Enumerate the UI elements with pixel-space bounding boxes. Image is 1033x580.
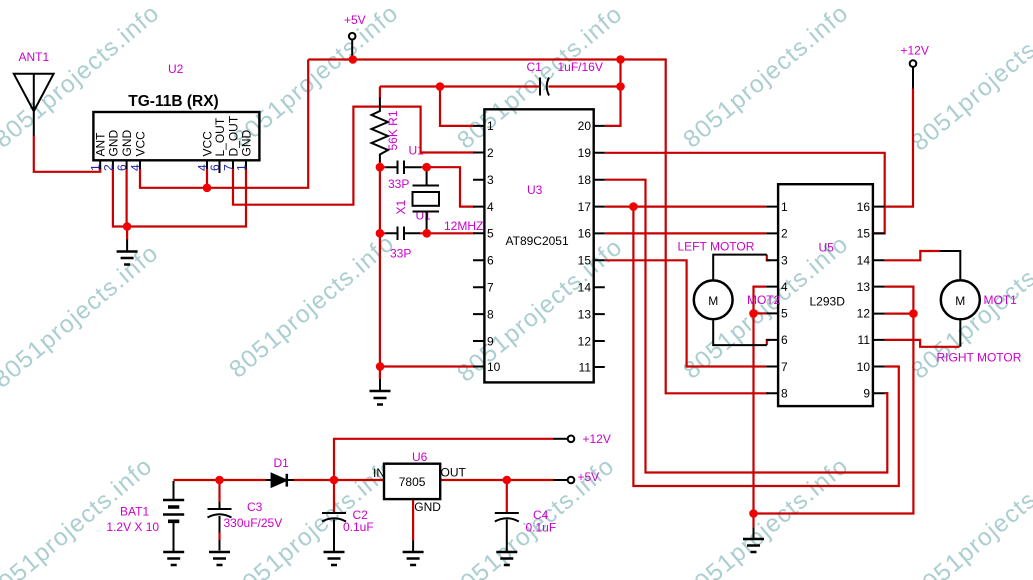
svg-text:8051projects.info: 8051projects.info	[906, 2, 1033, 156]
svg-text:12: 12	[857, 307, 871, 321]
svg-text:2: 2	[781, 227, 788, 241]
svg-text:+5V: +5V	[344, 13, 366, 27]
svg-text:18: 18	[578, 173, 592, 187]
svg-text:8051projects.info: 8051projects.info	[0, 239, 164, 393]
svg-text:U1: U1	[409, 144, 425, 158]
svg-text:GND: GND	[106, 130, 120, 157]
svg-text:0.1uF: 0.1uF	[343, 520, 374, 534]
svg-text:8051projects.info: 8051projects.info	[0, 0, 165, 154]
svg-text:6: 6	[208, 164, 222, 171]
svg-text:330uF/25V: 330uF/25V	[224, 516, 283, 530]
svg-text:20: 20	[578, 119, 592, 133]
svg-text:14: 14	[578, 281, 592, 295]
svg-text:L293D: L293D	[810, 295, 846, 309]
svg-text:1uF/16V: 1uF/16V	[558, 60, 603, 74]
svg-text:19: 19	[578, 146, 592, 160]
svg-text:+12V: +12V	[583, 432, 611, 446]
svg-text:9: 9	[487, 334, 494, 348]
svg-text:4: 4	[129, 164, 143, 171]
svg-text:RIGHT MOTOR: RIGHT MOTOR	[937, 351, 1022, 365]
svg-text:BAT1: BAT1	[120, 505, 149, 519]
svg-text:U3: U3	[527, 183, 543, 197]
svg-text:U5: U5	[819, 241, 835, 255]
svg-text:M: M	[955, 294, 965, 308]
svg-text:11: 11	[579, 360, 592, 374]
svg-text:15: 15	[857, 227, 871, 241]
svg-text:4: 4	[487, 200, 494, 214]
svg-text:56K R1: 56K R1	[386, 110, 400, 150]
svg-text:9: 9	[863, 387, 870, 401]
svg-text:C1: C1	[527, 60, 543, 74]
svg-text:3: 3	[781, 254, 788, 268]
svg-text:8051projects.info: 8051projects.info	[678, 0, 854, 154]
svg-text:LEFT MOTOR: LEFT MOTOR	[678, 239, 755, 253]
svg-text:VCC: VCC	[134, 131, 148, 157]
svg-text:33P: 33P	[390, 247, 411, 261]
svg-text:15: 15	[578, 254, 592, 268]
svg-text:+5V: +5V	[578, 470, 600, 484]
svg-text:MOT1: MOT1	[984, 293, 1018, 307]
svg-text:7: 7	[487, 281, 494, 295]
svg-text:16: 16	[578, 227, 592, 241]
svg-text:0.1uF: 0.1uF	[526, 521, 557, 535]
svg-text:5: 5	[487, 227, 494, 241]
svg-text:4: 4	[781, 280, 788, 294]
svg-text:12: 12	[578, 334, 592, 348]
svg-text:GND: GND	[240, 130, 254, 157]
svg-text:10: 10	[487, 360, 501, 374]
svg-text:TG-11B (RX): TG-11B (RX)	[128, 93, 218, 110]
svg-text:GND: GND	[414, 500, 441, 514]
svg-text:7: 7	[781, 360, 788, 374]
svg-text:AT89C2051: AT89C2051	[506, 234, 569, 248]
svg-text:L_OUT: L_OUT	[213, 117, 227, 156]
svg-text:GND: GND	[120, 130, 134, 157]
svg-text:6: 6	[781, 333, 788, 347]
svg-text:7: 7	[222, 164, 236, 171]
svg-text:14: 14	[857, 254, 871, 268]
svg-text:U6: U6	[412, 450, 428, 464]
svg-text:8: 8	[781, 387, 788, 401]
svg-text:2: 2	[487, 146, 494, 160]
svg-text:+12V: +12V	[901, 43, 929, 57]
svg-text:8051projects.info: 8051projects.info	[452, 0, 628, 154]
svg-text:8051projects.info: 8051projects.info	[224, 229, 400, 383]
svg-text:1.2V X 10: 1.2V X 10	[106, 520, 159, 534]
svg-text:13: 13	[857, 280, 871, 294]
svg-text:11: 11	[858, 333, 871, 347]
svg-text:5: 5	[781, 307, 788, 321]
svg-text:33P: 33P	[388, 177, 409, 191]
svg-text:OUT: OUT	[441, 466, 467, 480]
svg-text:2: 2	[101, 164, 115, 171]
svg-text:U2: U2	[168, 62, 184, 76]
svg-text:X1: X1	[394, 199, 408, 214]
svg-text:7805: 7805	[399, 475, 426, 489]
svg-text:3: 3	[487, 173, 494, 187]
svg-text:MOT2: MOT2	[747, 293, 781, 307]
svg-text:16: 16	[857, 200, 871, 214]
svg-text:M: M	[708, 294, 718, 308]
svg-text:D1: D1	[274, 456, 290, 470]
svg-text:17: 17	[578, 200, 592, 214]
svg-text:6: 6	[115, 164, 129, 171]
svg-text:8051projects.info: 8051projects.info	[452, 233, 628, 387]
svg-text:12MHZ: 12MHZ	[444, 219, 483, 233]
svg-text:ANT1: ANT1	[19, 50, 50, 64]
svg-text:1: 1	[487, 119, 494, 133]
svg-text:10: 10	[857, 360, 871, 374]
svg-text:1: 1	[235, 164, 249, 171]
svg-text:1: 1	[781, 200, 788, 214]
svg-text:6: 6	[487, 254, 494, 268]
svg-text:IN: IN	[373, 466, 385, 480]
svg-text:8051projects.info: 8051projects.info	[906, 452, 1033, 580]
svg-text:C3: C3	[247, 500, 263, 514]
svg-text:13: 13	[578, 307, 592, 321]
svg-text:8: 8	[487, 307, 494, 321]
svg-text:D_OUT: D_OUT	[227, 115, 241, 156]
